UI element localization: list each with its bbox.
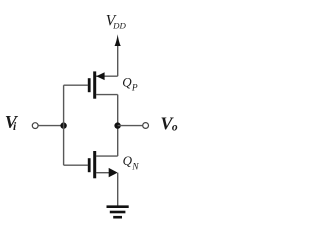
wire: PMOS drain down to output node xyxy=(117,95,119,126)
output terminal (open circle) xyxy=(143,123,149,129)
svg-text:o: o xyxy=(172,121,178,133)
PMOS source arrow (points into channel) xyxy=(96,72,104,80)
input terminal (open circle) xyxy=(32,123,38,129)
channel bar xyxy=(93,151,96,178)
gate bar xyxy=(88,78,91,92)
node VDD label xyxy=(106,12,127,30)
wire: gate rail (vertical) xyxy=(63,85,65,165)
label V_o xyxy=(160,114,178,134)
svg-text:N: N xyxy=(131,162,139,172)
junction dot: input node xyxy=(60,122,66,128)
wire: input terminal to gate rail xyxy=(38,125,63,127)
wire: NMOS drain up to output node xyxy=(117,126,119,157)
NMOS source arrow (points out) xyxy=(109,168,118,177)
svg-text:DD: DD xyxy=(112,21,126,31)
VDD supply arrow xyxy=(115,34,121,76)
svg-text:P: P xyxy=(131,84,138,94)
channel bar xyxy=(93,71,96,98)
gate wire xyxy=(64,164,89,166)
svg-text:V: V xyxy=(5,112,19,132)
source line xyxy=(96,172,111,174)
wire: PMOS source to supply (corner) xyxy=(96,75,118,77)
label Q_P xyxy=(122,75,138,94)
label Q_N xyxy=(123,153,140,172)
transistor Q_P (PMOS) xyxy=(64,71,118,98)
wire: output node to output terminal xyxy=(118,125,143,127)
drain line xyxy=(96,94,118,96)
label V_i xyxy=(5,112,19,133)
junction dot: output node xyxy=(114,122,120,128)
gate wire xyxy=(64,84,89,86)
wire: NMOS source down to ground xyxy=(117,173,119,206)
drain line xyxy=(96,155,118,157)
ground xyxy=(107,207,129,218)
svg-text:Q: Q xyxy=(122,75,132,90)
svg-text:Q: Q xyxy=(123,153,133,168)
gate bar xyxy=(88,158,91,172)
transistor Q_N (NMOS) xyxy=(64,151,118,178)
